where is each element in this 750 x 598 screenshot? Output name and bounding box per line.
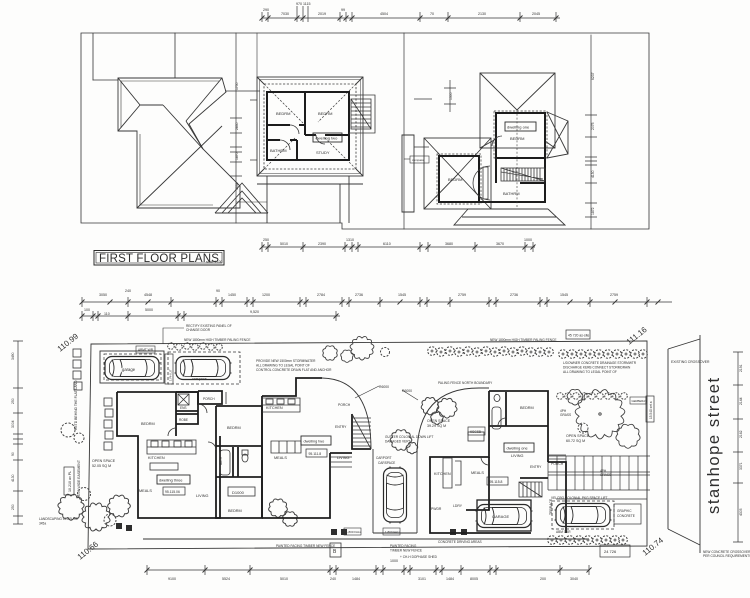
carspace dashed outline: [168, 352, 240, 384]
north fence tree row mid: [428, 347, 500, 357]
left roof hip left: [118, 78, 140, 131]
d3 island: [150, 463, 178, 470]
middle stair tower roof: [349, 95, 375, 133]
svg-text:ALL DRAWING TO LEGAL POINT OF: ALL DRAWING TO LEGAL POINT OF: [563, 370, 617, 374]
right vertical dim ticks: [585, 115, 597, 217]
dwelling three label box: [157, 475, 190, 484]
svg-text:4504: 4504: [380, 12, 388, 16]
bottom dim line of top drawing: [262, 246, 535, 248]
svg-text:110.74: 110.74: [641, 535, 666, 557]
svg-text:5000: 5000: [145, 308, 153, 312]
svg-text:2736: 2736: [510, 293, 518, 297]
svg-text:GRASS: GRASS: [560, 413, 571, 417]
svg-text:DAMAGED VERT: DAMAGED VERT: [385, 440, 410, 444]
svg-text:ABMT WR: ABMT WR: [138, 348, 154, 352]
svg-text:5524: 5524: [222, 577, 230, 581]
svg-text:290: 290: [263, 8, 269, 12]
car in d1 garage: [476, 505, 533, 528]
middle stair treads: [351, 99, 371, 129]
d1 wc: [494, 394, 500, 401]
svg-text:1545: 1545: [560, 293, 568, 297]
svg-text:CARSPACE: CARSPACE: [378, 461, 395, 465]
svg-text:1545: 1545: [398, 293, 406, 297]
bottom dim ticks: [262, 242, 533, 252]
d2 kitchen bench: [262, 398, 300, 412]
site boundary: [88, 341, 647, 549]
svg-text:6237: 6237: [591, 72, 595, 80]
right stair treads: [501, 168, 545, 181]
svg-text:2784: 2784: [317, 293, 325, 297]
svg-text:NEW 1800mm HIGH TIMBER PALING: NEW 1800mm HIGH TIMBER PALING FENCE: [490, 338, 556, 342]
garage inner dashed: [104, 354, 161, 380]
svg-text:95.115.8: 95.115.8: [490, 480, 503, 484]
DWELLING TWO ground floor: [262, 378, 371, 518]
svg-text:2019: 2019: [318, 12, 326, 16]
svg-text:FIRST FLOOR PLANS: FIRST FLOOR PLANS: [99, 253, 219, 265]
site dim row lower: [82, 315, 340, 317]
svg-text:2075: 2075: [591, 122, 595, 130]
middle roof corner hips: [257, 77, 363, 176]
wall stub vertical from top boundary: [174, 33, 176, 78]
d3 shower: [178, 394, 189, 405]
d1 outer walls: [430, 391, 548, 533]
svg-text:3894: 3894: [235, 182, 239, 190]
d2 outer walls: [262, 378, 352, 518]
svg-text:39.29 SQ M: 39.29 SQ M: [427, 424, 446, 428]
svg-text:dwelling three: dwelling three: [159, 479, 182, 483]
d2 front yard arc: [417, 388, 489, 455]
porch gable inner chevron: [222, 191, 261, 213]
site dim row upper: [82, 301, 672, 303]
svg-text:4305: 4305: [739, 508, 743, 516]
svg-text:2191: 2191: [739, 364, 743, 372]
svg-text:BEDRM: BEDRM: [276, 111, 290, 116]
svg-text:GRASS: GRASS: [600, 473, 611, 477]
svg-text:24 726: 24 726: [604, 549, 617, 554]
svg-text:MEALS: MEALS: [274, 456, 287, 460]
trees west yard: [58, 423, 130, 531]
d2 terrace squares: [271, 441, 301, 453]
D1000 box: [228, 487, 255, 496]
top dim line of middle plan: [262, 17, 560, 19]
svg-text:R6000: R6000: [379, 385, 389, 389]
left dim rotated labels: [11, 352, 15, 510]
big tree open space east: [567, 389, 640, 448]
middle door arc bed1: [290, 125, 299, 134]
LEFT-ROOF: [118, 78, 268, 213]
right dim rotated labels: [739, 364, 743, 516]
left wing hip X: [424, 138, 491, 209]
svg-text:MEALS: MEALS: [139, 489, 152, 493]
d2 entry steps: [330, 457, 352, 467]
divider box between cars: [165, 354, 173, 384]
d2 rounded corner arc: [322, 378, 371, 449]
narrow wing rect between plans: [402, 135, 414, 212]
porch gable base: [215, 198, 268, 213]
DWELLING ONE ground floor: [430, 391, 566, 533]
svg-text:1484: 1484: [446, 577, 454, 581]
svg-text:OPEN SPACE: OPEN SPACE: [92, 459, 116, 463]
svg-text:1872: 1872: [591, 207, 595, 215]
svg-text:100: 100: [84, 308, 90, 312]
svg-text:GARAGE: GARAGE: [492, 514, 509, 519]
svg-text:60.72 SQ M: 60.72 SQ M: [566, 439, 585, 443]
svg-text:3101: 3101: [418, 577, 426, 581]
compass label box: [404, 156, 429, 163]
svg-text:BATH: BATH: [219, 456, 223, 465]
svg-text:3004: 3004: [11, 420, 15, 428]
middle roof hip diagonals dashed: [264, 84, 356, 169]
svg-text:1500: 1500: [449, 92, 453, 100]
svg-text:1,800 FALL: 1,800 FALL: [385, 530, 401, 534]
svg-text:7030: 7030: [281, 12, 289, 16]
left roof main hip diagonal: [137, 126, 222, 208]
svg-text:2759: 2759: [458, 293, 466, 297]
svg-text:KITCHEN: KITCHEN: [148, 456, 165, 460]
d1 area box: [487, 477, 508, 485]
svg-text:4150: 4150: [591, 170, 595, 178]
middle wall bedroom divider vertical: [304, 92, 306, 135]
leader rectify: [163, 328, 184, 344]
dimension line vertical between left roof and middle plan: [235, 33, 237, 223]
svg-text:95.115.06: 95.115.06: [165, 490, 180, 494]
landscaping closure note: [39, 517, 78, 526]
svg-text:PER COUNCIL REQUIREMENTS: PER COUNCIL REQUIREMENTS: [703, 554, 750, 558]
svg-text:LANDSCAPING CLOSURE: LANDSCAPING CLOSURE: [39, 517, 78, 521]
svg-text:240: 240: [125, 289, 131, 293]
right plan top pyramid roof: [480, 73, 555, 148]
svg-text:stanhope street: stanhope street: [705, 376, 723, 514]
title box FIRST FLOOR PLANS: [94, 251, 224, 266]
svg-text:+ CH-H DOPHASE SHED: + CH-H DOPHASE SHED: [400, 555, 438, 559]
svg-text:5010: 5010: [280, 242, 288, 246]
svg-text:5010: 5010: [280, 577, 288, 581]
d1 stairs: [519, 482, 542, 497]
d1 tub: [492, 407, 501, 429]
svg-text:EXISTING CROSSOVER: EXISTING CROSSOVER: [671, 360, 710, 364]
d1 porch steps: [548, 455, 566, 459]
svg-text:BEDRM: BEDRM: [510, 136, 524, 141]
north fence tree row west: [168, 343, 223, 351]
note rectify damaged panel: [184, 324, 250, 342]
d2 stairs treads: [352, 414, 371, 449]
svg-text:ROBE: ROBE: [179, 418, 188, 422]
svg-text:2390: 2390: [318, 242, 326, 246]
svg-text:4548: 4548: [144, 293, 152, 297]
right wing hips X: [547, 112, 568, 158]
10210 box rotated: [64, 467, 74, 495]
svg-text:110.99: 110.99: [56, 331, 81, 353]
dimension line vertical right side: [590, 35, 592, 229]
middle wall hall: [305, 134, 349, 136]
svg-text:LIVING: LIVING: [511, 454, 523, 458]
svg-text:3680: 3680: [445, 242, 453, 246]
gerberas box: [630, 397, 647, 404]
svg-text:9,520: 9,520: [250, 310, 259, 314]
right plan labels: [448, 136, 524, 196]
middle plan external walls: [267, 92, 349, 160]
d3 mid column walls: [216, 406, 262, 518]
porch gable outer chevron: [215, 183, 268, 213]
middle ground walls below: [267, 176, 349, 223]
svg-text:8005: 8005: [470, 577, 478, 581]
left roof valley right: [186, 121, 203, 149]
stepping squares west: [73, 349, 113, 450]
right door arc 2: [473, 166, 490, 200]
svg-text:45 720 as-site: 45 720 as-site: [568, 334, 589, 338]
d3 labels: [139, 397, 242, 513]
middle wall bathroom: [267, 140, 297, 160]
svg-text:2144: 2144: [739, 397, 743, 405]
party wall vertical between middle and right plan: [403, 33, 405, 229]
svg-text:NEW 1800mm HIGH TIMBER PALING: NEW 1800mm HIGH TIMBER PALING FENCE: [184, 338, 250, 342]
dim ticks between plans: [225, 80, 456, 212]
svg-text:BATHRM: BATHRM: [270, 148, 287, 153]
svg-text:MEALS: MEALS: [471, 471, 484, 475]
svg-text:1 PH LIT: 1 PH LIT: [169, 369, 173, 381]
d2 labels: [266, 403, 351, 460]
dim ticks middle left: [225, 90, 260, 92]
d1 carspace dashed: [552, 501, 614, 529]
hedge row inner east: [557, 393, 628, 400]
svg-text:9100: 9100: [168, 577, 176, 581]
DWELLING THREE ground floor: [117, 391, 262, 518]
middle stair rect: [351, 99, 371, 129]
right door arc 1: [492, 136, 502, 146]
car in d1 carspace: [555, 504, 612, 527]
svg-text:PAINTED FACING TIMBER NEW FENC: PAINTED FACING TIMBER NEW FENCE: [276, 544, 335, 548]
d3 porch: [198, 391, 222, 404]
svg-text:90: 90: [11, 452, 15, 456]
d1 inner walls: [466, 457, 566, 533]
RIGHT-PLAN dwelling one first floor: [424, 73, 568, 225]
tick slashes bottom plan: [80, 300, 661, 573]
middle room labels: [270, 111, 332, 155]
dim labels bottom plan top row: [84, 289, 618, 581]
car vertical in carport: [384, 467, 407, 524]
eave connector below middle plan: [236, 201, 267, 203]
svg-text:250: 250: [11, 398, 15, 404]
svg-text:2162: 2162: [739, 430, 743, 438]
dwelling two label box: [313, 133, 342, 142]
site left dim column: [17, 341, 19, 524]
svg-text:15.540 set a: 15.540 set a: [649, 401, 653, 419]
svg-text:CONTROL CONCRETE DRAIN FLAT AN: CONTROL CONCRETE DRAIN FLAT AND ANCHOR: [256, 368, 332, 372]
svg-text:3490: 3490: [11, 352, 15, 360]
left roof fascia parallels: [121, 81, 219, 205]
right stairs hatched: [501, 168, 545, 181]
svg-text:10.210 av PL: 10.210 av PL: [68, 471, 72, 492]
svg-text:3040: 3040: [570, 577, 578, 581]
svg-text:PWDR: PWDR: [431, 507, 442, 511]
svg-text:110: 110: [104, 312, 110, 316]
open space east labels: [566, 434, 590, 443]
dim ticks left of right plan: [414, 99, 432, 147]
right plan walls bedroom left: [439, 156, 479, 202]
middle roof wall line dashed: [264, 84, 356, 169]
svg-text:D1000: D1000: [232, 490, 245, 495]
svg-text:2759: 2759: [610, 293, 618, 297]
garage block outline top-left: [100, 351, 240, 384]
left roof ridge: [140, 104, 163, 106]
svg-text:KITCHEN: KITCHEN: [434, 472, 451, 476]
svg-text:250: 250: [263, 238, 269, 242]
svg-text:garage: garage: [122, 367, 136, 372]
svg-text:1000: 1000: [390, 559, 398, 563]
svg-text:PORCH: PORCH: [203, 397, 215, 401]
svg-text:BEDRM: BEDRM: [227, 426, 241, 430]
svg-text:3050: 3050: [99, 293, 107, 297]
setback box vertical: [646, 396, 654, 422]
dwelling one label box: [505, 122, 536, 131]
left roof outline: [118, 78, 240, 208]
svg-text:250: 250: [11, 504, 15, 510]
middle wall horizontal bed1: [267, 124, 305, 126]
street kerb far line: [699, 335, 701, 553]
crossover top splay: [668, 339, 700, 349]
svg-text:dwelling two: dwelling two: [304, 440, 325, 444]
svg-text:LIVING: LIVING: [196, 494, 208, 498]
svg-text:LIVING: LIVING: [337, 456, 349, 460]
svg-text:GUTTER COLONIAL DOWN LIFT: GUTTER COLONIAL DOWN LIFT: [385, 435, 433, 439]
note painted facing: [276, 540, 482, 559]
d3 entry steps: [222, 392, 226, 404]
boundary notch step top-left: [93, 79, 118, 81]
svg-text:BEDRM: BEDRM: [141, 422, 155, 426]
svg-text:BEDRM: BEDRM: [448, 177, 462, 182]
svg-text:1,800 FALL: 1,800 FALL: [346, 530, 362, 534]
R6000 leaders: [355, 386, 418, 400]
trees open space middle: [390, 398, 457, 454]
site boundary outline (first floor plan sheet): [81, 33, 649, 229]
svg-text:PAINTED FACING: PAINTED FACING: [390, 544, 417, 548]
dwelling one gf label box: [504, 443, 534, 452]
site bottom dim row: [147, 569, 589, 571]
svg-text:1200: 1200: [262, 293, 270, 297]
svg-text:1870: 1870: [235, 152, 239, 160]
svg-text:4130: 4130: [11, 474, 15, 482]
TOP-DIMENSIONS: [262, 6, 560, 252]
right plan walls bath: [479, 158, 545, 202]
fall boxes: [344, 528, 401, 535]
top dim extension ticks: [262, 6, 556, 22]
note packard block: [256, 359, 332, 372]
svg-text:1310: 1310: [346, 238, 354, 242]
graphic concrete box: [614, 504, 641, 524]
svg-text:3670: 3670: [496, 242, 504, 246]
svg-text:ABM CAR: ABM CAR: [556, 530, 571, 534]
svg-text:ENS: ENS: [180, 406, 187, 410]
middle lower eave line: [257, 183, 363, 185]
left wing wall dashed: [437, 154, 481, 204]
d1 kitchen bench: [443, 458, 461, 488]
R6000 labels: [379, 385, 412, 393]
svg-text:LDRY: LDRY: [453, 504, 463, 508]
carport dashed label: [376, 456, 395, 465]
svg-text:ENTRY: ENTRY: [530, 465, 542, 469]
svg-text:1000: 1000: [524, 238, 532, 242]
svg-text:1750: 1750: [235, 82, 239, 90]
street kerb line near: [668, 335, 700, 553]
pyramid hip X: [480, 73, 555, 148]
svg-text:90: 90: [216, 289, 220, 293]
svg-text:STUDY: STUDY: [316, 150, 330, 155]
svg-text:2830: 2830: [235, 122, 239, 130]
right centre axis dashed: [516, 110, 518, 209]
d3 kitchen bench: [147, 440, 196, 454]
new concrete crossover note: [703, 550, 750, 558]
svg-text:OPEN SPACE: OPEN SPACE: [566, 434, 590, 438]
MIDDLE-PLAN dwelling two first floor: [257, 77, 363, 223]
svg-text:DISCHARGE KERB CONNECT STORMDR: DISCHARGE KERB CONNECT STORMDRAIN: [563, 366, 631, 370]
d2 stair walls: [352, 414, 371, 449]
site right dim column: [737, 352, 739, 542]
svg-text:scale 1:100: scale 1:100: [206, 260, 223, 264]
svg-text:2130: 2130: [478, 12, 486, 16]
top dim labels: [263, 2, 540, 246]
svg-text:GRAPHIC: GRAPHIC: [617, 509, 632, 513]
svg-text:PROVIDE NEW 1500mm STORMWATER: PROVIDE NEW 1500mm STORMWATER: [256, 359, 316, 363]
left wing roof square: [424, 138, 491, 209]
right wing roof: [547, 112, 568, 158]
d3 ens robe walls: [176, 392, 198, 424]
svg-text:BEDRM: BEDRM: [318, 111, 332, 116]
bottom roof flare: [454, 209, 565, 225]
paving grid east court: [548, 456, 650, 490]
d3 wc pan: [242, 454, 248, 462]
south hedge row east: [548, 536, 628, 545]
middle door arc bath: [280, 140, 290, 150]
svg-text:L/DOWNER CONCRETE DRAINAGE STO: L/DOWNER CONCRETE DRAINAGE STORMWTR: [563, 361, 637, 365]
svg-text:PORCH: PORCH: [338, 403, 351, 407]
d3 outer walls: [117, 392, 220, 518]
svg-text:970 1115: 970 1115: [296, 2, 310, 6]
svg-text:CHANGE DOOR: CHANGE DOOR: [186, 328, 211, 332]
middle stub left: [250, 100, 257, 160]
dwelling two gf label box: [301, 436, 331, 445]
car 2 in carspace: [175, 357, 232, 380]
svg-text:ALL DRAWING TO LEGAL POINT OF: ALL DRAWING TO LEGAL POINT OF: [256, 364, 310, 368]
svg-text:1450: 1450: [228, 293, 236, 297]
crossover bottom splay: [668, 529, 700, 545]
svg-text:TIMBER NEW FENCE: TIMBER NEW FENCE: [390, 549, 422, 553]
svg-text:52.05 SQ M: 52.05 SQ M: [92, 464, 111, 468]
right tower wall dashed: [494, 111, 547, 158]
svg-text:BEDRM: BEDRM: [228, 509, 242, 513]
svg-text:6110: 6110: [383, 242, 391, 246]
d3 area box: [163, 487, 185, 495]
car 1 in garage: [104, 357, 161, 380]
d3 door arcs: [168, 404, 216, 450]
svg-text:200: 200: [540, 577, 546, 581]
d1 labels: [431, 406, 571, 534]
svg-text:70: 70: [430, 12, 434, 16]
svg-text:dwelling one: dwelling one: [507, 125, 530, 130]
B box: [330, 543, 341, 557]
dim line between middle and right plan: [444, 80, 456, 112]
svg-text:CONCRETE: CONCRETE: [617, 514, 635, 518]
site dim row upper extension ticks: [82, 297, 647, 307]
svg-text:B: B: [333, 549, 337, 555]
svg-text:240: 240: [330, 577, 336, 581]
svg-text:PALING FENCE NORTH BOUNDARY: PALING FENCE NORTH BOUNDARY: [438, 381, 493, 385]
svg-text:PORCH: PORCH: [551, 462, 564, 466]
svg-text:TERRACE: TERRACE: [549, 498, 553, 515]
svg-text:3371: 3371: [739, 462, 743, 470]
small rotated dim labels top drawing: [235, 72, 595, 215]
svg-text:OPEN SPACE: OPEN SPACE: [427, 419, 451, 423]
gutter note: [385, 435, 433, 444]
